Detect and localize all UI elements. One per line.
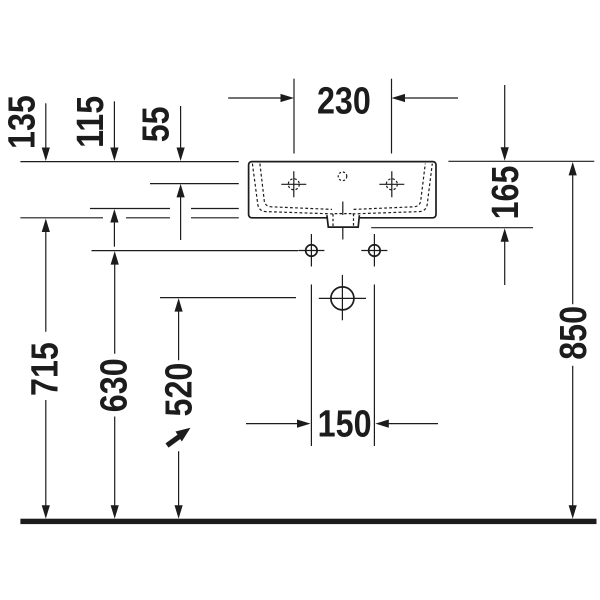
overflow hole (dashed circle) (338, 172, 347, 181)
arrowhead 850 up (569, 162, 577, 176)
siphon level line (160, 297, 296, 299)
arrowhead 520 down (175, 505, 183, 519)
inner bowl inner dashed line (260, 164, 425, 210)
arrowhead 55 up (177, 184, 185, 198)
arrowhead 135 down (42, 148, 50, 162)
dim 55 down arrow (180, 106, 182, 150)
dim 850 line (572, 174, 574, 507)
drain dashed box (333, 214, 354, 226)
dim 230 extension line left (293, 79, 295, 154)
inner bowl outer dashed line (252, 164, 432, 214)
svg-text:115: 115 (70, 96, 112, 148)
basin outline (249, 162, 436, 218)
dim 230 arrow left (228, 97, 282, 99)
arrowhead 715 down (42, 505, 50, 519)
drain bracket outline (327, 215, 360, 227)
faucet hole right (dashed circle) (386, 179, 397, 190)
rim extension line left (20, 161, 238, 163)
siphon outlet circle (331, 287, 354, 310)
svg-text:135: 135 (1, 95, 43, 149)
fixing hole right (369, 245, 381, 257)
height-adjust arrow symbol (176, 428, 191, 442)
arrowhead 55 down (177, 148, 185, 162)
svg-text:630: 630 (93, 358, 135, 412)
fixing hole right crosshair (361, 234, 387, 267)
dim 230 arrow right (404, 97, 459, 99)
svg-text:150: 150 (318, 403, 372, 445)
arrowhead 150 right (375, 420, 389, 428)
svg-text:520: 520 (158, 363, 200, 417)
arrowhead 850 down (569, 505, 577, 519)
drain centerline (342, 202, 344, 240)
svg-text:55: 55 (135, 106, 177, 142)
dim 115 up arrow tail (113, 221, 115, 247)
arrowhead 230 left (281, 94, 295, 102)
svg-text:230: 230 (317, 80, 371, 122)
faucet level line (55 ref) (150, 183, 239, 185)
faucet hole left (dashed circle) (288, 179, 299, 190)
135 ref line (basin bottom level) (20, 217, 238, 219)
fixing holes level line (92, 250, 299, 252)
arrowhead 630 up (111, 251, 119, 265)
arrowhead 630 down (111, 505, 119, 519)
arrowhead 520 up (175, 298, 183, 312)
siphon crosshair (319, 275, 366, 320)
dim 520 line (178, 310, 180, 507)
svg-text:165: 165 (485, 166, 527, 220)
faucet hole left crosshair (281, 171, 306, 197)
fixing hole extension line right (373, 285, 375, 447)
fixing hole left (306, 245, 318, 257)
dim 135 down arrow (45, 103, 47, 149)
165 ref line (below drain) (371, 227, 533, 229)
dim 715 line (45, 231, 47, 507)
rim extension line right (448, 160, 594, 162)
fixing hole left crosshair (298, 234, 324, 267)
115 ref line (90, 208, 239, 210)
dim 150 arrow left (246, 423, 299, 425)
arrowhead 165 up (501, 228, 509, 242)
dim 630 line (114, 263, 116, 507)
arrowhead 715 up (42, 219, 50, 233)
svg-text:850: 850 (553, 306, 595, 360)
arrowhead 165 down (501, 147, 509, 161)
arrowhead 150 left (297, 420, 311, 428)
svg-text:715: 715 (24, 342, 66, 396)
dim 150 arrow right (387, 423, 438, 425)
dim 165 down arrow (504, 85, 506, 149)
dim 55 up arrow tail (180, 196, 182, 240)
dim 230 extension line right (391, 79, 393, 154)
arrowhead 115 up (110, 209, 118, 223)
dim 115 down arrow (113, 101, 115, 149)
faucet hole right crosshair (379, 171, 404, 197)
drain bracket white mask (327, 215, 359, 227)
dim 165 up arrow tail (504, 240, 506, 285)
fixing hole extension line left (310, 285, 312, 447)
floor line (20, 519, 596, 524)
arrowhead 115 down (110, 148, 118, 162)
arrowhead 230 right (392, 94, 406, 102)
